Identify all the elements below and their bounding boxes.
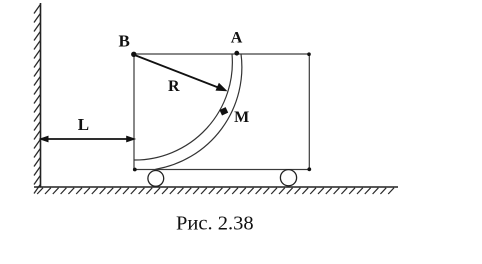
svg-text:R: R — [168, 78, 180, 95]
svg-text:L: L — [78, 115, 89, 134]
svg-text:Рис. 2.38: Рис. 2.38 — [176, 213, 254, 235]
svg-text:B: B — [119, 31, 130, 50]
svg-text:M: M — [234, 109, 249, 126]
svg-text:A: A — [231, 29, 243, 46]
